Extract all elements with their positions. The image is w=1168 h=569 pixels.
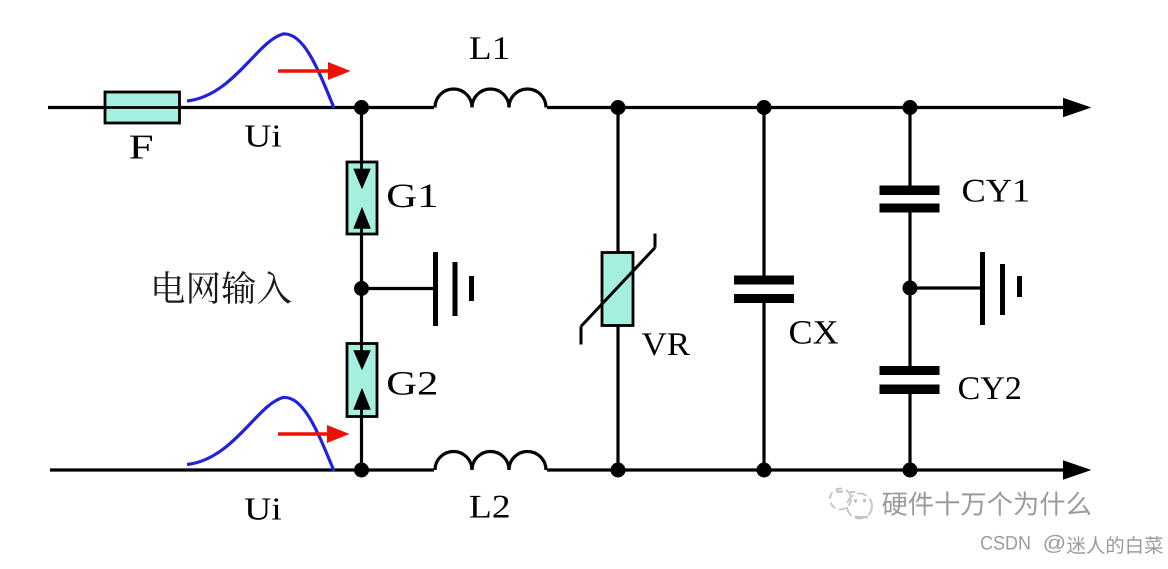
- node CY bottom: [903, 463, 918, 478]
- label F: [130, 136, 152, 159]
- varistor VR: [581, 234, 655, 345]
- surge direction arrow bottom (red): [278, 425, 350, 443]
- node CY top: [903, 100, 918, 115]
- node VR top: [611, 100, 626, 115]
- surge waveform bottom (blue): [187, 397, 334, 471]
- ground right: [983, 252, 1020, 325]
- label CY2: [959, 377, 1020, 399]
- label L2: [470, 496, 508, 518]
- node mid G branch: [354, 281, 369, 296]
- label VR: [642, 333, 690, 355]
- wire VR branch: [616, 108, 619, 471]
- wire bottom main line: [50, 468, 1065, 471]
- watermark text 硬件十万个为什么: [882, 491, 1090, 515]
- label G2: [388, 372, 436, 395]
- label Ui top: [245, 125, 281, 147]
- label 电网输入 (power grid input): [155, 271, 292, 304]
- node CX bottom: [757, 463, 772, 478]
- capacitor CY2: [880, 366, 940, 470]
- label Ui bottom: [245, 498, 281, 520]
- arrowhead top line output: [1063, 98, 1091, 117]
- surge waveform top (blue): [187, 34, 334, 108]
- capacitor CY1: [880, 108, 940, 367]
- node CX top: [757, 100, 772, 115]
- node CY mid: [903, 281, 918, 296]
- label G1: [388, 184, 436, 207]
- arrowhead bottom line output: [1063, 460, 1091, 479]
- fuse F: [105, 92, 180, 123]
- node top G branch: [354, 100, 369, 115]
- gas discharge tube G1: [347, 162, 377, 234]
- label CY1: [963, 180, 1028, 202]
- ground left: [436, 252, 472, 326]
- wire CY mid to ground (right): [910, 286, 980, 289]
- inductor L1: [434, 89, 547, 111]
- wire G1-G2 vertical branch: [360, 108, 363, 471]
- watermark logo: [830, 489, 872, 519]
- surge direction arrow top (red): [278, 62, 351, 80]
- node bottom G branch: [354, 463, 369, 478]
- wire top main line: [48, 106, 1065, 109]
- CSDN credit: [981, 536, 1030, 550]
- gas discharge tube G2: [347, 344, 377, 417]
- capacitor CX: [734, 108, 794, 471]
- label CX: [790, 321, 838, 344]
- inductor L2: [434, 452, 547, 474]
- wire midpoint to ground (left): [362, 287, 435, 290]
- node VR bottom: [611, 463, 626, 478]
- label L1: [470, 37, 508, 59]
